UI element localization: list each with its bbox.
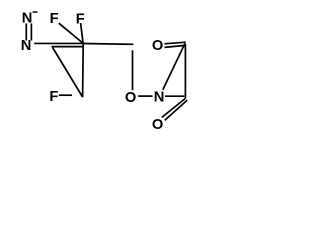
svg-text:O: O	[125, 90, 136, 106]
svg-text:O: O	[152, 117, 163, 133]
bond F2-C vertical	[81, 23, 84, 43]
bond F3-C horizontal	[59, 94, 72, 96]
bond C=O2 double, line 1	[164, 42, 185, 44]
bond ring vertical Cb-Cc	[82, 44, 85, 98]
bond C=O2 double, line 2	[165, 45, 185, 47]
svg-text:N: N	[21, 38, 32, 54]
bond N3-C(bottom carbonyl)	[165, 95, 184, 97]
bond N3-C(top carbonyl) diagonal	[163, 43, 185, 89]
svg-text:N: N	[22, 11, 33, 27]
svg-text:F: F	[50, 11, 59, 27]
bond N1=N2 double, line 1	[25, 23, 27, 40]
bond O1-N3	[138, 95, 152, 97]
bond C-C chain to ester corner	[83, 43, 133, 46]
bond C-O1 vertical	[132, 50, 134, 90]
svg-text:F: F	[76, 11, 85, 27]
svg-text:N: N	[154, 89, 165, 105]
svg-text:F: F	[49, 89, 58, 105]
bond F1-C diagonal	[59, 23, 83, 43]
bond N2-C and C=C main line	[34, 42, 83, 44]
bond ring diagonal Ca-Cc	[53, 48, 83, 98]
bond N1=N2 double, line 2	[30, 23, 32, 40]
svg-text:O: O	[152, 38, 163, 54]
bond C=C double, second line	[52, 46, 83, 48]
bond C=O3 double, line 1	[162, 98, 186, 117]
bond ring vertical (right)	[184, 44, 186, 99]
charge minus superscript on N1	[33, 11, 38, 13]
bond C=O3 double, line 2	[165, 100, 188, 120]
